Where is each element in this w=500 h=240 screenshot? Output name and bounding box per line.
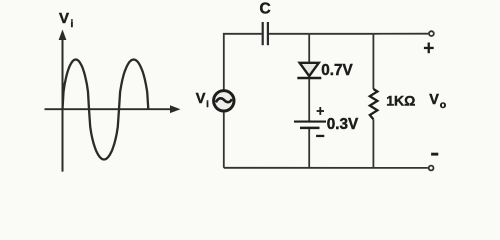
battery 0.3V [294,107,326,137]
wire top-left (source to capacitor) [224,34,262,90]
svg-text:1KΩ: 1KΩ [386,92,415,108]
source Vi [214,91,234,111]
wire top (capacitor to node A) [269,33,309,35]
resistor R1 [370,89,378,119]
terminal + (output) [424,31,434,53]
terminal - (output) [429,153,439,171]
svg-text:o: o [440,99,446,111]
svg-text:V: V [59,10,69,27]
wire source bottom [223,112,225,168]
svg-text:V: V [196,91,206,107]
wire resistor bottom [372,119,374,168]
wire diode to battery [308,79,310,121]
bottom wire [224,167,428,169]
waveform vertical axis [59,30,67,172]
label Vo [429,92,446,111]
waveform horizontal axis [45,105,181,113]
svg-text:i: i [71,19,74,30]
svg-text:i: i [206,99,209,109]
wire node A to diode [308,34,310,64]
diode D1 [297,63,321,78]
sine waveform [63,60,149,160]
capacitor C [263,22,268,45]
svg-text:0.7V: 0.7V [321,62,353,79]
svg-text:0.3V: 0.3V [327,116,359,133]
svg-text:C: C [260,1,271,18]
svg-text:V: V [429,92,439,108]
wire top-right (to + terminal) [373,33,428,35]
label Vi (source) [196,91,209,109]
wire resistor top [372,34,374,89]
wire battery to bottom [308,129,310,168]
node A (diode branch junction, top) [309,33,373,35]
label Vi (waveform) [59,10,74,30]
